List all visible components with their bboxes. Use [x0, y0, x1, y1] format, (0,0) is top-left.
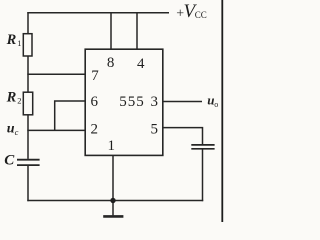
svg-text:c: c — [15, 127, 19, 137]
wire pin 4 — [136, 13, 138, 49]
svg-text:3: 3 — [150, 94, 158, 110]
svg-text:7: 7 — [91, 68, 99, 84]
svg-text:o: o — [214, 100, 218, 109]
wire left vertical top — [27, 12, 29, 34]
svg-text:4: 4 — [137, 56, 145, 72]
svg-text:8: 8 — [107, 55, 115, 71]
wire pin 7 branch — [27, 73, 85, 75]
capacitor C plates — [17, 160, 40, 165]
wire pin 2 branch — [27, 129, 85, 131]
wire pin 1 to ground — [112, 155, 114, 215]
resistor R1 — [23, 34, 32, 56]
svg-text:2: 2 — [90, 122, 98, 138]
svg-text:5: 5 — [150, 122, 158, 138]
junction dot — [110, 198, 115, 203]
capacitor C2 plates — [191, 145, 214, 149]
IC U1 555 body — [85, 49, 163, 155]
svg-text:1: 1 — [17, 38, 21, 48]
svg-text:1: 1 — [108, 138, 116, 154]
wire R1 to R2 — [27, 56, 29, 93]
svg-text:2: 2 — [17, 95, 21, 105]
svg-text:C: C — [4, 152, 15, 168]
wire R2 to capacitor C — [27, 115, 29, 159]
svg-text:R: R — [6, 89, 17, 105]
svg-text:u: u — [7, 122, 15, 137]
wire bottom rail — [27, 200, 203, 202]
wire pin 3 output — [163, 101, 202, 103]
svg-text:CC: CC — [195, 10, 207, 20]
svg-text:555: 555 — [119, 94, 145, 110]
wire pin 5 — [163, 128, 203, 145]
wire pin 6 branch — [55, 101, 85, 130]
wire top rail to +Vcc — [27, 12, 169, 14]
svg-text:R: R — [6, 32, 17, 48]
wire C to bottom rail — [27, 166, 29, 201]
wire pin 8 — [110, 13, 112, 49]
svg-text:6: 6 — [90, 94, 98, 110]
wire C2 to bottom rail — [202, 149, 204, 201]
ground — [103, 215, 123, 218]
resistor R2 — [23, 92, 32, 115]
